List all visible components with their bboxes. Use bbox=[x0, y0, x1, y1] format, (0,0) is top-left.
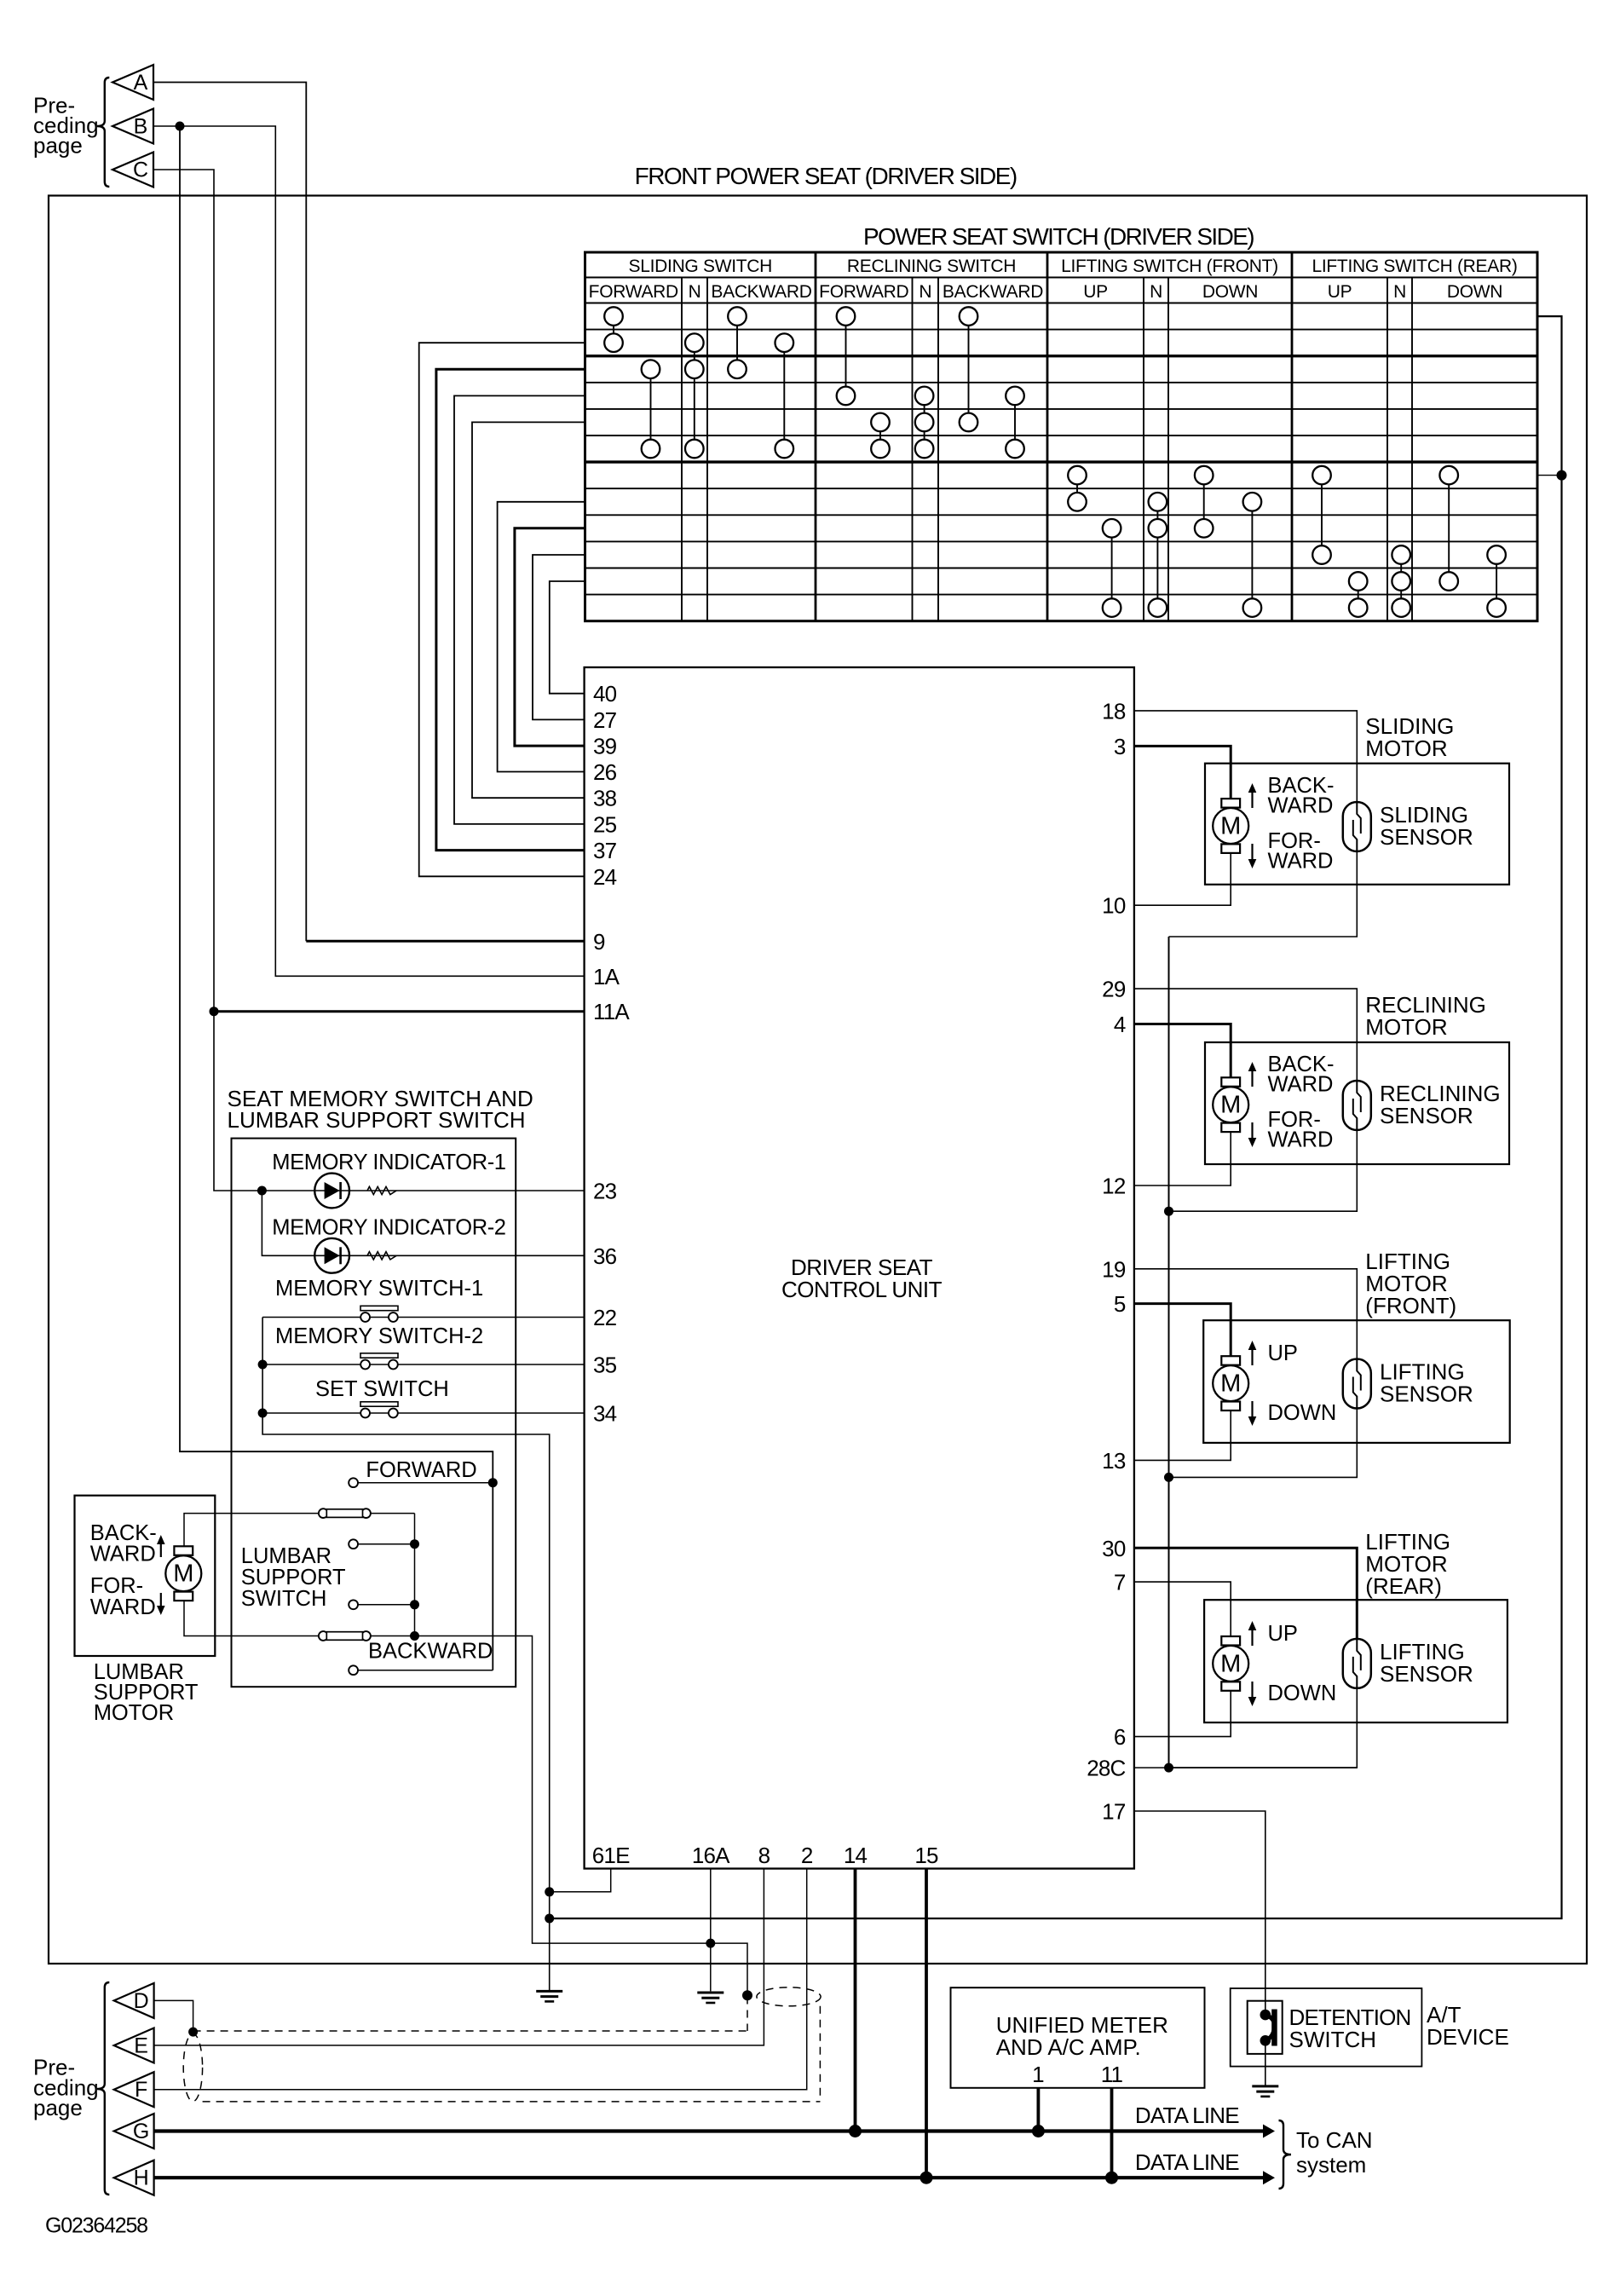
svg-text:25: 25 bbox=[593, 811, 617, 837]
wire lifting rear sensor return bbox=[1169, 1688, 1358, 1768]
memory switch-1 pushbutton bbox=[360, 1306, 398, 1310]
svg-text:16A: 16A bbox=[692, 1843, 730, 1868]
wire pin 16A to ground bbox=[710, 1869, 712, 1992]
svg-text:UP: UP bbox=[1083, 282, 1108, 302]
lumbar bridge contact upper bbox=[319, 1509, 328, 1518]
control unit left pin labels bbox=[593, 681, 630, 1426]
svg-text:N: N bbox=[1150, 282, 1162, 302]
svg-text:N: N bbox=[919, 282, 931, 302]
svg-text:DATA LINE: DATA LINE bbox=[1135, 2149, 1239, 2175]
svg-text:UP: UP bbox=[1328, 282, 1352, 302]
LED memory indicator-1 bbox=[314, 1174, 349, 1209]
data line 2 (to CAN) bbox=[154, 2176, 1263, 2179]
svg-text:UP: UP bbox=[1268, 1341, 1298, 1365]
label LUMBAR SUPPORT SWITCH bbox=[241, 1544, 346, 1611]
lifting rear motor box bbox=[1204, 1600, 1508, 1722]
wire from connector B to pin 1A bbox=[153, 126, 585, 976]
svg-text:G02364258: G02364258 bbox=[45, 2214, 147, 2238]
label To CAN system bbox=[1296, 2127, 1373, 2178]
junction sensor common at pin 28C wire bbox=[1164, 1763, 1173, 1773]
svg-text:34: 34 bbox=[593, 1401, 617, 1427]
motor M of reclining bbox=[1221, 1077, 1240, 1087]
direction labels of lifting front bbox=[1268, 1341, 1337, 1425]
reclining sensor symbol bbox=[1343, 1081, 1371, 1130]
svg-text:LUMBAR SUPPORT SWITCH: LUMBAR SUPPORT SWITCH bbox=[228, 1107, 526, 1133]
wire pin 15 to data line 2 bbox=[925, 1869, 928, 2178]
svg-text:WARD: WARD bbox=[1268, 1128, 1334, 1152]
wire pin 61E to ground bus bbox=[550, 1869, 611, 1892]
svg-text:MEMORY INDICATOR-2: MEMORY INDICATOR-2 bbox=[272, 1216, 505, 1240]
svg-text:13: 13 bbox=[1102, 1448, 1126, 1474]
connector A (from preceding page) bbox=[112, 65, 153, 100]
svg-text:SWITCH: SWITCH bbox=[1289, 2027, 1377, 2052]
connector D (from preceding page) bbox=[114, 1983, 154, 2018]
motor M of lifting front bbox=[1221, 1356, 1240, 1365]
junction meter pin 11 on data line 2 bbox=[1105, 2172, 1118, 2184]
svg-text:18: 18 bbox=[1102, 698, 1126, 724]
reclining switch FORWARD contacts (left) bbox=[837, 307, 856, 405]
svg-text:1A: 1A bbox=[593, 964, 620, 989]
label DETENTION SWITCH bbox=[1289, 2005, 1411, 2052]
svg-text:WARD: WARD bbox=[1268, 794, 1334, 818]
svg-text:38: 38 bbox=[593, 786, 617, 811]
svg-text:MOTOR: MOTOR bbox=[1365, 736, 1447, 761]
detention switch box bbox=[1231, 1988, 1422, 2067]
svg-text:4: 4 bbox=[1114, 1012, 1126, 1037]
svg-text:MOTOR: MOTOR bbox=[94, 1701, 174, 1725]
sliding switch N contacts bbox=[685, 333, 704, 458]
label DRIVER SEAT CONTROL UNIT bbox=[781, 1255, 943, 1302]
svg-text:DOWN: DOWN bbox=[1268, 1682, 1337, 1705]
svg-text:19: 19 bbox=[1102, 1256, 1126, 1282]
wire lumbar bridge upper to motor top bbox=[184, 1514, 319, 1547]
memory switch-2 pushbutton bbox=[360, 1353, 398, 1358]
wire control unit pin to lifting front sensor bbox=[1134, 1269, 1357, 1359]
resistor of memory indicator-2 bbox=[367, 1252, 396, 1260]
svg-text:DOWN: DOWN bbox=[1268, 1401, 1337, 1425]
lumbar support switch BACKWARD contact bbox=[349, 1665, 493, 1675]
svg-text:E: E bbox=[134, 2034, 148, 2058]
wire lifting rear motor (-) to control unit pin bbox=[1134, 1691, 1231, 1737]
svg-text:23: 23 bbox=[593, 1179, 617, 1204]
motor M of lifting rear bbox=[1221, 1636, 1240, 1646]
common wire of memory and set switches to ground bbox=[262, 1318, 550, 1992]
reclining switch BACKWARD contacts (right) bbox=[1006, 387, 1024, 459]
svg-text:SLIDING SWITCH: SLIDING SWITCH bbox=[629, 257, 772, 276]
junction pin 14 on data line 1 bbox=[849, 2125, 862, 2137]
svg-text:BACKWARD: BACKWARD bbox=[368, 1640, 493, 1664]
brace for preceding-page connectors A B C bbox=[97, 78, 110, 187]
sliding switch BACKWARD contacts (left) bbox=[728, 307, 747, 378]
wire memory switch-1 to pin 22 bbox=[262, 1317, 584, 1318]
wire from switch table row to control unit pin (x=583.6) bbox=[498, 502, 585, 772]
lumbar selector bus bbox=[414, 1514, 416, 1636]
shield dashed outline around pins 8 and 2 wires bbox=[183, 1987, 821, 2102]
svg-text:10: 10 bbox=[1102, 893, 1126, 919]
junction selector bus at lower bridge bbox=[410, 1631, 419, 1641]
svg-text:22: 22 bbox=[593, 1305, 617, 1330]
svg-text:5: 5 bbox=[1114, 1291, 1126, 1317]
lumbar support switch contact 3 bbox=[349, 1600, 414, 1609]
junction selector bus contact 2 bbox=[410, 1539, 419, 1549]
svg-text:29: 29 bbox=[1102, 977, 1126, 1002]
wire pin 8 to connector E bbox=[154, 1869, 764, 2045]
wire reclining motor (-) to control unit pin bbox=[1134, 1132, 1231, 1185]
connector C (from preceding page) bbox=[112, 153, 153, 187]
svg-text:24: 24 bbox=[593, 864, 617, 890]
control unit right pin labels bbox=[1087, 698, 1126, 1824]
reclining switch N contacts bbox=[915, 387, 934, 459]
label BACK-WARD (lumbar motor) bbox=[90, 1521, 157, 1566]
svg-text:WARD: WARD bbox=[1268, 850, 1334, 874]
svg-text:M: M bbox=[1220, 813, 1241, 840]
wire memory indicator-2 to pin 36 bbox=[262, 1191, 584, 1255]
svg-text:UP: UP bbox=[1268, 1622, 1298, 1646]
svg-text:FORWARD: FORWARD bbox=[589, 282, 678, 302]
arrow forward (lumbar) bbox=[160, 1593, 162, 1608]
lifting rear switch N contacts bbox=[1392, 545, 1410, 617]
wire from switch table row to control unit pin (x=533.0) bbox=[454, 395, 585, 824]
svg-text:H: H bbox=[134, 2166, 149, 2190]
junction switch common at set switch bbox=[258, 1409, 268, 1418]
lumbar support switch contact 2 bbox=[349, 1539, 414, 1549]
wire from connector C to pin 11A and memory indicators bbox=[153, 170, 262, 1191]
svg-text:27: 27 bbox=[593, 707, 617, 733]
junction pin 15 on data line 2 bbox=[920, 2172, 933, 2184]
seat memory switch and lumbar support switch box bbox=[232, 1139, 516, 1687]
direction arrows of lifting rear bbox=[1251, 1628, 1253, 1646]
svg-text:SET SWITCH: SET SWITCH bbox=[315, 1377, 449, 1401]
label lifting front sensor bbox=[1380, 1359, 1473, 1407]
resistor of memory indicator-1 bbox=[367, 1186, 396, 1194]
svg-text:WARD: WARD bbox=[90, 1595, 156, 1619]
lifting front motor box bbox=[1203, 1320, 1510, 1443]
wire from switch table row to control unit pin (x=554.0) bbox=[472, 422, 585, 798]
svg-text:SENSOR: SENSOR bbox=[1380, 1661, 1473, 1687]
svg-text:12: 12 bbox=[1102, 1174, 1126, 1199]
svg-text:MEMORY INDICATOR-1: MEMORY INDICATOR-1 bbox=[272, 1151, 505, 1174]
wire unified meter pin 1 to data line 1 bbox=[1037, 2088, 1041, 2132]
lifting front switch DOWN contacts (left) bbox=[1195, 466, 1214, 538]
wire pin 11A bbox=[214, 1010, 585, 1012]
wire from connector A to pin 9 bbox=[153, 83, 306, 942]
brace to CAN system bbox=[1279, 2120, 1292, 2189]
wire lumbar bridge lower to ground bus bbox=[371, 1636, 747, 1996]
wire from connector B down to lumbar support switch feed bbox=[180, 126, 493, 1670]
svg-text:CONTROL UNIT: CONTROL UNIT bbox=[781, 1277, 943, 1302]
label sliding motor bbox=[1365, 713, 1454, 761]
label A/T DEVICE bbox=[1427, 2002, 1509, 2050]
wire control unit pin to reclining sensor bbox=[1134, 989, 1357, 1081]
wire from switch table row to control unit pin (x=491.7) bbox=[419, 343, 585, 876]
label SEAT MEMORY SWITCH AND LUMBAR SUPPORT SWITCH bbox=[228, 1086, 533, 1133]
svg-text:9: 9 bbox=[593, 929, 605, 955]
svg-text:35: 35 bbox=[593, 1353, 617, 1378]
arrow backward (lumbar) bbox=[160, 1542, 162, 1557]
svg-text:DEVICE: DEVICE bbox=[1427, 2024, 1509, 2050]
junction right vertical at row 7 bbox=[1557, 470, 1567, 481]
lumbar support motor box bbox=[75, 1496, 216, 1656]
outer border frame of FRONT POWER SEAT (DRIVER SIDE) bbox=[49, 196, 1587, 1964]
svg-text:M: M bbox=[1220, 1650, 1241, 1677]
reclining switch BACKWARD contacts (left) bbox=[960, 307, 978, 431]
svg-text:17: 17 bbox=[1102, 1799, 1126, 1825]
svg-text:M: M bbox=[1220, 1370, 1241, 1398]
wire from switch table row 1 down right side to ground bus bbox=[550, 316, 1562, 1918]
wire from switch table row to control unit pin (x=644.8) bbox=[550, 581, 585, 694]
junction lumbar feed at FORWARD contact bbox=[488, 1478, 498, 1487]
svg-text:page: page bbox=[33, 133, 83, 159]
label LUMBAR SUPPORT MOTOR bbox=[94, 1660, 199, 1725]
svg-text:N: N bbox=[1393, 282, 1406, 302]
wire reclining sensor return bbox=[1169, 1130, 1358, 1211]
svg-text:WARD: WARD bbox=[90, 1543, 156, 1566]
svg-text:BACKWARD: BACKWARD bbox=[711, 282, 811, 302]
wire sliding motor (-) to control unit pin bbox=[1134, 853, 1231, 905]
svg-text:SENSOR: SENSOR bbox=[1380, 824, 1473, 850]
svg-text:DATA LINE: DATA LINE bbox=[1135, 2103, 1239, 2128]
svg-text:FOR-: FOR- bbox=[90, 1574, 143, 1598]
label Pre-ceding page (top) bbox=[33, 93, 99, 159]
svg-text:POWER SEAT SWITCH (DRIVER SIDE: POWER SEAT SWITCH (DRIVER SIDE) bbox=[863, 223, 1254, 250]
junction shield drain bbox=[742, 1990, 752, 2000]
wire lifting front motor (-) to control unit pin bbox=[1134, 1410, 1231, 1460]
svg-text:2: 2 bbox=[801, 1843, 813, 1868]
label Pre-ceding page (bottom) bbox=[33, 2055, 99, 2120]
column headers FORWARD / N / BACKWARD / UP / DOWN bbox=[589, 282, 1502, 302]
data line 1 (to CAN) bbox=[154, 2129, 1263, 2132]
lifting front switch UP contacts (right) bbox=[1103, 519, 1121, 617]
set switch pushbutton bbox=[360, 1402, 398, 1406]
direction arrows of reclining bbox=[1251, 1069, 1253, 1087]
wire lifting front sensor return bbox=[1169, 1409, 1358, 1478]
label UNIFIED METER AND A/C AMP. bbox=[996, 2012, 1168, 2060]
svg-text:AND A/C AMP.: AND A/C AMP. bbox=[996, 2034, 1141, 2060]
direction labels of lifting rear bbox=[1268, 1622, 1337, 1705]
svg-text:FORWARD: FORWARD bbox=[366, 1458, 476, 1482]
wire pin 14 to data line 1 bbox=[854, 1869, 857, 2132]
wire sliding sensor return bbox=[1169, 851, 1358, 937]
motor M of sliding bbox=[1221, 799, 1240, 808]
svg-text:14: 14 bbox=[844, 1843, 868, 1868]
svg-text:system: system bbox=[1296, 2152, 1366, 2178]
label reclining sensor bbox=[1380, 1081, 1501, 1128]
svg-text:A: A bbox=[134, 71, 148, 95]
junction 61E at ground bus bbox=[545, 1887, 554, 1896]
svg-text:page: page bbox=[33, 2095, 83, 2120]
svg-text:36: 36 bbox=[593, 1243, 617, 1269]
wire memory indicator-1 to pin 23 bbox=[262, 1190, 584, 1191]
lifting front switch DOWN contacts (right) bbox=[1243, 493, 1262, 617]
lifting rear switch DOWN contacts (right) bbox=[1487, 545, 1506, 617]
svg-text:37: 37 bbox=[593, 838, 617, 863]
wire unified meter pin 11 to data line 2 bbox=[1110, 2088, 1114, 2178]
svg-text:39: 39 bbox=[593, 734, 617, 759]
junction connector D at shield bbox=[188, 2028, 198, 2037]
direction labels of sliding bbox=[1268, 774, 1335, 874]
wire pin 28C to lifting rear sensor return bbox=[1134, 1767, 1357, 1768]
svg-text:11A: 11A bbox=[593, 999, 630, 1024]
svg-text:MEMORY SWITCH-1: MEMORY SWITCH-1 bbox=[275, 1277, 483, 1301]
connector B (from preceding page) bbox=[112, 109, 153, 144]
svg-text:SUPPORT: SUPPORT bbox=[241, 1566, 346, 1589]
svg-text:G: G bbox=[133, 2120, 149, 2143]
lifting front switch N contacts bbox=[1149, 493, 1167, 617]
junction sensor common and reclining sensor return (pin 12 node) bbox=[1164, 1207, 1173, 1216]
ground symbol of switch common bbox=[536, 1990, 562, 1993]
svg-text:LIFTING SWITCH (FRONT): LIFTING SWITCH (FRONT) bbox=[1061, 257, 1278, 276]
wire stub table row 7 to right vertical bbox=[1537, 475, 1562, 476]
wire control unit pin to lifting rear motor (+) bbox=[1134, 1582, 1231, 1636]
svg-text:MOTOR: MOTOR bbox=[1365, 1014, 1447, 1040]
direction arrows of lifting front bbox=[1251, 1347, 1253, 1365]
wire lumbar bridge lower to motor bottom bbox=[184, 1601, 319, 1635]
junction ground bus to table feed wire bbox=[545, 1914, 554, 1924]
unified meter and A/C amp box bbox=[951, 1987, 1205, 2088]
svg-text:WARD: WARD bbox=[1268, 1073, 1334, 1097]
label reclining motor bbox=[1365, 992, 1486, 1040]
svg-text:FORWARD: FORWARD bbox=[819, 282, 908, 302]
wire from switch table row to control unit pin (x=603.9) bbox=[515, 528, 585, 746]
junction sensor common and lifting front sensor return (pin 13 node) bbox=[1164, 1473, 1173, 1482]
svg-text:M: M bbox=[173, 1560, 193, 1588]
junction at pin 11A wire bbox=[210, 1007, 219, 1016]
lifting rear sensor symbol bbox=[1343, 1639, 1371, 1688]
svg-text:(REAR): (REAR) bbox=[1365, 1573, 1442, 1599]
svg-text:3: 3 bbox=[1114, 734, 1126, 759]
svg-text:M: M bbox=[1220, 1092, 1241, 1119]
svg-text:B: B bbox=[134, 115, 148, 139]
direction arrows of sliding bbox=[1251, 790, 1253, 808]
LED memory indicator-2 bbox=[314, 1238, 349, 1273]
lifting rear switch DOWN contacts (left) bbox=[1439, 466, 1458, 591]
svg-text:11: 11 bbox=[1101, 2062, 1123, 2087]
wire control unit pin to sliding motor (+) bbox=[1134, 746, 1231, 799]
svg-text:8: 8 bbox=[758, 1843, 770, 1868]
svg-text:BACKWARD: BACKWARD bbox=[943, 282, 1043, 302]
wire from switch table row to control unit pin (x=625.0) bbox=[533, 555, 585, 719]
svg-text:15: 15 bbox=[914, 1843, 938, 1868]
svg-text:LUMBAR: LUMBAR bbox=[241, 1544, 331, 1568]
svg-text:(FRONT): (FRONT) bbox=[1365, 1293, 1456, 1318]
sliding switch BACKWARD contacts (right) bbox=[775, 333, 794, 458]
sliding motor box bbox=[1205, 764, 1509, 885]
direction labels of reclining bbox=[1268, 1053, 1335, 1152]
svg-text:FRONT POWER SEAT (DRIVER SIDE): FRONT POWER SEAT (DRIVER SIDE) bbox=[635, 163, 1017, 189]
label lifting rear motor bbox=[1365, 1529, 1450, 1599]
wire pin 2 to connector F bbox=[154, 1869, 807, 2090]
wire pin 17 to detention switch bbox=[1134, 1811, 1265, 2015]
sliding sensor symbol bbox=[1343, 802, 1371, 851]
lifting rear switch UP contacts (left) bbox=[1312, 466, 1331, 564]
brace for preceding-page connectors D E F G H bbox=[97, 1982, 110, 2195]
sliding switch FORWARD contacts (left) bbox=[604, 307, 623, 352]
svg-text:SENSOR: SENSOR bbox=[1380, 1103, 1473, 1128]
svg-text:40: 40 bbox=[593, 681, 617, 707]
junction memory indicator feed bbox=[257, 1186, 267, 1196]
label sliding sensor bbox=[1380, 802, 1473, 850]
svg-text:SENSOR: SENSOR bbox=[1380, 1382, 1473, 1407]
svg-text:DOWN: DOWN bbox=[1202, 282, 1258, 302]
svg-text:D: D bbox=[134, 1989, 149, 2013]
driver seat control unit box bbox=[585, 667, 1134, 1869]
lifting front sensor symbol bbox=[1343, 1359, 1371, 1409]
lifting front switch UP contacts (left) bbox=[1068, 466, 1087, 511]
svg-text:26: 26 bbox=[593, 759, 617, 785]
junction 16A at lumbar ground wire bbox=[706, 1939, 715, 1948]
wire control unit pin to reclining motor (+) bbox=[1134, 1024, 1231, 1078]
svg-text:To CAN: To CAN bbox=[1296, 2127, 1373, 2153]
connector F (from preceding page) bbox=[114, 2072, 154, 2107]
connector G (from preceding page) bbox=[114, 2114, 154, 2149]
ground symbol of detention switch bbox=[1252, 2085, 1278, 2087]
svg-text:LIFTING SWITCH (REAR): LIFTING SWITCH (REAR) bbox=[1312, 257, 1517, 276]
label FOR-WARD (lumbar motor) bbox=[90, 1574, 156, 1619]
sensor common wire down to pin 28C bbox=[1168, 937, 1170, 1768]
junction switch common at memory switch-2 bbox=[258, 1360, 268, 1370]
control unit bottom pin labels bbox=[592, 1843, 938, 1868]
junction on wire B bbox=[176, 122, 185, 131]
wire from switch table row to control unit pin (x=511.9) bbox=[436, 369, 585, 850]
svg-text:C: C bbox=[133, 159, 148, 182]
svg-text:RECLINING SWITCH: RECLINING SWITCH bbox=[847, 257, 1016, 276]
wire memory switch-2 to pin 35 bbox=[262, 1364, 584, 1365]
wire set switch to pin 34 bbox=[262, 1412, 584, 1414]
wire detention switch to ground bbox=[1265, 2040, 1266, 2086]
sliding switch FORWARD contacts (right) bbox=[642, 360, 660, 458]
wire control unit pin to lifting front motor (+) bbox=[1134, 1304, 1231, 1357]
svg-text:28C: 28C bbox=[1087, 1756, 1125, 1781]
svg-text:1: 1 bbox=[1032, 2062, 1044, 2087]
wire connector D to shield bbox=[154, 2000, 193, 2032]
ground symbol of pin 16A bbox=[697, 1992, 724, 1994]
connector H (from preceding page) bbox=[114, 2160, 154, 2195]
svg-text:30: 30 bbox=[1102, 1536, 1126, 1561]
svg-text:61E: 61E bbox=[592, 1843, 630, 1868]
lifting rear switch UP contacts (right) bbox=[1349, 572, 1368, 617]
wire lumbar bridge upper right to selector bus bbox=[371, 1513, 415, 1514]
svg-text:SWITCH: SWITCH bbox=[241, 1587, 327, 1611]
motor M lumbar support bbox=[174, 1546, 193, 1555]
reclining switch FORWARD contacts (right) bbox=[871, 413, 890, 459]
svg-text:6: 6 bbox=[1114, 1724, 1126, 1750]
svg-text:N: N bbox=[689, 282, 701, 302]
lumbar support switch FORWARD contact bbox=[349, 1478, 493, 1487]
junction selector bus contact 3 bbox=[410, 1600, 419, 1609]
power seat switch table grid bbox=[585, 252, 1538, 621]
wire control unit pin to lifting rear sensor bbox=[1134, 1548, 1357, 1639]
svg-text:7: 7 bbox=[1114, 1570, 1126, 1595]
connector E (from preceding page) bbox=[114, 2028, 154, 2063]
wire control unit pin to sliding sensor bbox=[1134, 711, 1357, 802]
svg-text:MEMORY SWITCH-2: MEMORY SWITCH-2 bbox=[275, 1324, 483, 1348]
label lifting rear sensor bbox=[1380, 1639, 1473, 1687]
svg-text:DOWN: DOWN bbox=[1447, 282, 1502, 302]
junction meter pin 1 on data line 1 bbox=[1032, 2125, 1045, 2137]
lumbar bridge contact lower bbox=[319, 1631, 328, 1641]
label lifting front motor bbox=[1365, 1249, 1456, 1318]
detention switch symbol bbox=[1248, 2001, 1283, 2054]
reclining motor box bbox=[1205, 1042, 1509, 1164]
svg-text:F: F bbox=[135, 2078, 147, 2102]
